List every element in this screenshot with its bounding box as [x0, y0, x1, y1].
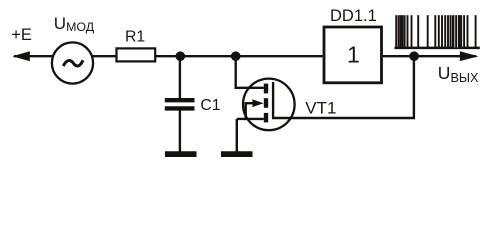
- AC source U_MOD (sine generator): [52, 42, 93, 83]
- wire VT1 source lead: [237, 118, 264, 120]
- svg-text:UМОД: UМОД: [54, 14, 95, 34]
- wire main horizontal net from supply arrow to DD1.1 input: [14, 55, 323, 57]
- svg-text:VT1: VT1: [305, 98, 336, 117]
- transistor VT1 channel source segment: [264, 113, 268, 123]
- wire VT1 drain lead from junction: [236, 56, 264, 88]
- supply arrow +E (left): [12, 51, 29, 61]
- svg-text:+E: +E: [11, 26, 32, 44]
- ground bar under C1: [165, 151, 197, 157]
- svg-text:DD1.1: DD1.1: [330, 7, 377, 25]
- wire C1 top lead: [179, 56, 181, 99]
- capacitor C1: [165, 100, 195, 108]
- transistor VT1 gate electrode and feedback wire to output node: [273, 56, 414, 118]
- svg-text:1: 1: [347, 42, 360, 68]
- wire VT1 substrate to source link: [244, 102, 246, 120]
- svg-text:R1: R1: [125, 29, 145, 46]
- wire output net from DD1.1 to arrow: [383, 55, 476, 57]
- transistor VT1 channel drain segment: [264, 84, 268, 94]
- transistor VT1 channel substrate segment: [264, 98, 268, 108]
- node junction dot at C1 tap: [176, 51, 186, 61]
- transistor VT1 substrate arrow: [246, 99, 264, 107]
- pulse train dense burst block: [452, 15, 461, 47]
- wire C1 bottom lead: [179, 110, 181, 152]
- wire VT1 source down to ground: [236, 119, 238, 152]
- node junction dot at VT1 drain tap: [231, 51, 241, 61]
- logic gate DD1.1 box: [324, 27, 382, 83]
- output arrow U_VYH (right): [460, 51, 479, 61]
- transistor VT1 body circle: [243, 79, 295, 131]
- svg-text:C1: C1: [200, 97, 220, 114]
- resistor R1: [117, 48, 156, 61]
- node junction dot at output: [409, 51, 419, 61]
- pulse train baseline: [395, 47, 480, 50]
- pulse train bars: [396, 15, 475, 47]
- ground bar under VT1: [221, 151, 253, 157]
- svg-text:UВЫХ: UВЫХ: [438, 63, 479, 85]
